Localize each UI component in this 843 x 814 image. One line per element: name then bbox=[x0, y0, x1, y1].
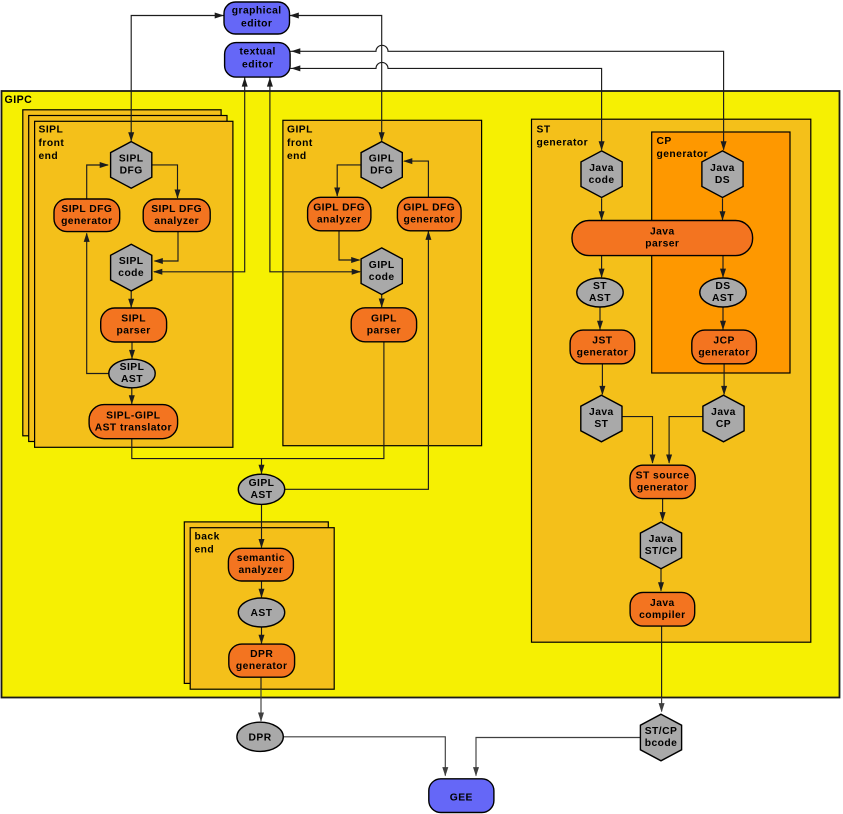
wire AST to DPR generator bbox=[259, 627, 265, 644]
wire Java parser to DS AST bbox=[720, 256, 726, 278]
wire GIPL code to GIPL parser bbox=[379, 295, 385, 308]
svg-text:code: code bbox=[118, 268, 144, 279]
component DPR generator bbox=[229, 644, 295, 677]
svg-text:parser: parser bbox=[117, 326, 151, 337]
svg-text:end: end bbox=[287, 151, 307, 162]
wire SIPL AST to SIPL DFG generator bbox=[84, 233, 109, 374]
svg-text:analyzer: analyzer bbox=[317, 215, 362, 226]
svg-text:DFG: DFG bbox=[120, 166, 143, 177]
wire DPR generator to DPR bbox=[260, 677, 262, 689]
svg-text:CP: CP bbox=[716, 419, 731, 430]
component SIPL-GIPL AST translator bbox=[89, 405, 178, 439]
wire textual editor to GIPL code (bidirectional) bbox=[267, 77, 361, 274]
ellipse SIPL AST bbox=[109, 359, 155, 388]
wire textual editor to Java code (bidirectional, hop over crossing) bbox=[291, 62, 605, 150]
svg-text:DS: DS bbox=[715, 281, 730, 292]
svg-text:DS: DS bbox=[715, 175, 730, 186]
wire GIPL AST to semantic analyzer bbox=[259, 505, 265, 549]
svg-text:end: end bbox=[195, 545, 215, 556]
node GEE bbox=[429, 779, 494, 813]
svg-text:parser: parser bbox=[367, 325, 401, 336]
svg-text:SIPL DFG: SIPL DFG bbox=[61, 204, 112, 215]
hexagon SIPL DFG bbox=[111, 142, 152, 189]
svg-text:semantic: semantic bbox=[237, 553, 285, 564]
svg-text:SIPL: SIPL bbox=[121, 314, 146, 325]
wire JCP generator to Java CP bbox=[721, 364, 727, 395]
hexagon Java DS bbox=[702, 151, 743, 198]
svg-text:editor: editor bbox=[242, 60, 273, 71]
svg-text:analyzer: analyzer bbox=[238, 565, 283, 576]
wire GIPL DFG to GIPL DFG analyzer bbox=[334, 165, 361, 197]
ellipse DPR bbox=[237, 722, 283, 751]
svg-text:Java: Java bbox=[589, 407, 614, 418]
wire Java code to Java parser bbox=[599, 198, 605, 220]
wire semantic analyzer to AST bbox=[259, 581, 265, 598]
svg-text:front: front bbox=[39, 138, 65, 149]
component Java compiler bbox=[630, 592, 695, 626]
svg-text:analyzer: analyzer bbox=[154, 216, 199, 227]
svg-text:back: back bbox=[195, 531, 220, 542]
svg-text:SIPL: SIPL bbox=[119, 256, 144, 267]
svg-text:bcode: bcode bbox=[645, 738, 678, 749]
svg-text:Java: Java bbox=[650, 227, 675, 238]
svg-text:GIPL: GIPL bbox=[369, 260, 395, 271]
component JCP generator bbox=[692, 330, 757, 364]
svg-text:SIPL: SIPL bbox=[120, 362, 145, 373]
svg-text:generator: generator bbox=[61, 216, 113, 227]
hexagon Java ST/CP bbox=[640, 522, 681, 569]
wire SIPL-GIPL AST translator and GIPL parser to junction bbox=[132, 342, 384, 459]
component SIPL DFG analyzer bbox=[143, 199, 210, 232]
svg-text:ST: ST bbox=[594, 419, 608, 430]
svg-text:generator: generator bbox=[537, 138, 589, 149]
wire ST/CP bcode to GEE bbox=[473, 738, 640, 777]
svg-text:JST: JST bbox=[592, 336, 612, 347]
wire JST generator to Java ST bbox=[599, 364, 605, 395]
wire ST AST to JST generator bbox=[597, 307, 603, 330]
svg-text:GIPL: GIPL bbox=[369, 154, 395, 165]
svg-text:ST: ST bbox=[537, 124, 551, 135]
wire textual editor to Java DS (bidirectional, hop over crossing) bbox=[291, 45, 727, 150]
svg-text:editor: editor bbox=[241, 18, 272, 29]
svg-text:parser: parser bbox=[645, 239, 679, 250]
svg-text:GIPL DFG: GIPL DFG bbox=[403, 203, 455, 214]
svg-text:ST: ST bbox=[593, 281, 607, 292]
ellipse DS AST bbox=[700, 278, 746, 307]
svg-text:SIPL DFG: SIPL DFG bbox=[151, 204, 202, 215]
svg-text:AST: AST bbox=[121, 374, 143, 385]
ellipse GIPL AST bbox=[238, 474, 284, 504]
svg-text:DPR: DPR bbox=[250, 649, 273, 660]
component ST source generator bbox=[630, 465, 695, 498]
svg-text:GIPL DFG: GIPL DFG bbox=[313, 203, 365, 214]
wire DS AST to JCP generator bbox=[720, 307, 726, 330]
wire junction to GIPL AST bbox=[259, 459, 265, 475]
svg-text:Java: Java bbox=[650, 598, 675, 609]
component JST generator bbox=[570, 330, 635, 364]
component semantic analyzer bbox=[228, 548, 293, 581]
wire GIPL AST to GIPL DFG generator bbox=[285, 231, 432, 490]
wire Java ST/CP to Java compiler bbox=[658, 569, 664, 592]
ellipse AST bbox=[238, 598, 284, 627]
hexagon GIPL code bbox=[361, 248, 402, 295]
wire DPR generator to DPR (outside GIPC) bbox=[258, 689, 264, 722]
svg-text:GEE: GEE bbox=[450, 793, 473, 804]
wire ST source generator to Java ST/CP bbox=[660, 499, 666, 522]
wire GIPL DFG analyzer to GIPL code bbox=[339, 231, 361, 263]
svg-text:CP: CP bbox=[657, 136, 672, 147]
svg-text:GIPL: GIPL bbox=[249, 478, 275, 489]
wire textual editor to SIPL code (bidirectional) bbox=[153, 77, 248, 274]
component GIPL parser bbox=[351, 308, 416, 342]
wire Java parser to ST AST bbox=[599, 256, 605, 278]
wire Java DS to Java parser bbox=[720, 198, 726, 220]
hexagon ST/CP bcode bbox=[640, 714, 681, 761]
svg-text:generator: generator bbox=[236, 661, 288, 672]
wire GIPL DFG generator to GIPL DFG bbox=[403, 158, 428, 197]
svg-text:Java: Java bbox=[649, 534, 674, 545]
wire DPR to GEE bbox=[283, 737, 448, 777]
svg-text:ST/CP: ST/CP bbox=[645, 546, 678, 557]
component SIPL DFG generator bbox=[54, 199, 120, 232]
wire SIPL AST to SIPL-GIPL AST translator bbox=[129, 388, 135, 405]
svg-text:compiler: compiler bbox=[639, 610, 686, 621]
component SIPL parser bbox=[101, 308, 167, 342]
svg-text:AST translator: AST translator bbox=[95, 422, 172, 433]
svg-text:AST: AST bbox=[251, 608, 273, 619]
wire graphical editor to GIPL DFG (bidirectional) bbox=[290, 13, 385, 142]
svg-text:generator: generator bbox=[577, 348, 629, 359]
ellipse ST AST bbox=[577, 278, 623, 307]
box SIPL front end bbox=[35, 121, 233, 447]
wire graphical editor to SIPL DFG (bidirectional) bbox=[128, 13, 224, 142]
svg-text:Java: Java bbox=[710, 163, 735, 174]
box CP generator bbox=[652, 132, 790, 373]
box SIPL front end back sheet 2 bbox=[23, 110, 221, 436]
wire Java compiler to ST/CP bcode (outside GIPC) bbox=[659, 698, 665, 713]
svg-text:graphical: graphical bbox=[232, 5, 282, 16]
component Java parser bbox=[572, 221, 753, 256]
component GIPL DFG generator bbox=[397, 197, 461, 231]
wire Java compiler to ST/CP bcode bbox=[661, 626, 663, 697]
svg-text:end: end bbox=[39, 151, 59, 162]
svg-text:AST: AST bbox=[589, 293, 611, 304]
svg-text:SIPL-GIPL: SIPL-GIPL bbox=[106, 410, 160, 421]
svg-text:code: code bbox=[369, 272, 395, 283]
editor graphical editor bbox=[224, 2, 290, 34]
svg-text:GIPL: GIPL bbox=[287, 125, 313, 136]
svg-text:DFG: DFG bbox=[370, 166, 393, 177]
svg-text:generator: generator bbox=[403, 215, 455, 226]
svg-text:AST: AST bbox=[251, 490, 273, 501]
svg-text:generator: generator bbox=[698, 348, 750, 359]
hexagon GIPL DFG bbox=[361, 142, 402, 189]
svg-text:Java: Java bbox=[589, 163, 614, 174]
wire Java CP to ST source generator bbox=[666, 417, 703, 464]
hexagon Java code bbox=[581, 151, 622, 198]
svg-text:GIPL: GIPL bbox=[371, 313, 397, 324]
wire SIPL DFG analyzer to SIPL code bbox=[154, 232, 179, 264]
box ST generator bbox=[532, 119, 811, 642]
svg-text:generator: generator bbox=[657, 149, 709, 160]
svg-text:Java: Java bbox=[711, 407, 736, 418]
svg-text:AST: AST bbox=[712, 293, 734, 304]
svg-text:SIPL: SIPL bbox=[119, 154, 144, 165]
box GIPL front end bbox=[283, 120, 482, 445]
svg-text:SIPL: SIPL bbox=[39, 125, 64, 136]
wire SIPL DFG to SIPL DFG analyzer bbox=[152, 165, 181, 199]
box GIPC container bbox=[2, 91, 840, 698]
wire SIPL code to SIPL parser bbox=[128, 291, 134, 308]
svg-text:code: code bbox=[589, 175, 615, 186]
box SIPL front end back sheet 1 bbox=[29, 116, 227, 442]
svg-text:front: front bbox=[287, 138, 313, 149]
box back end back sheet bbox=[184, 522, 328, 684]
svg-text:JCP: JCP bbox=[713, 336, 734, 347]
editor textual editor bbox=[225, 43, 291, 78]
hexagon Java CP bbox=[703, 395, 744, 442]
svg-text:textual: textual bbox=[240, 47, 276, 58]
wire SIPL DFG generator to SIPL DFG bbox=[87, 162, 109, 199]
svg-text:generator: generator bbox=[637, 483, 689, 494]
box back end bbox=[190, 528, 334, 690]
component GIPL DFG analyzer bbox=[308, 197, 371, 231]
svg-text:GIPC: GIPC bbox=[5, 94, 33, 106]
wire Java ST to ST source generator bbox=[622, 417, 656, 464]
svg-text:ST source: ST source bbox=[636, 471, 690, 482]
svg-text:ST/CP: ST/CP bbox=[645, 726, 678, 737]
svg-text:DPR: DPR bbox=[249, 732, 272, 743]
wire SIPL parser to SIPL AST bbox=[129, 342, 135, 359]
hexagon SIPL code bbox=[111, 244, 152, 291]
hexagon Java ST bbox=[581, 395, 622, 442]
